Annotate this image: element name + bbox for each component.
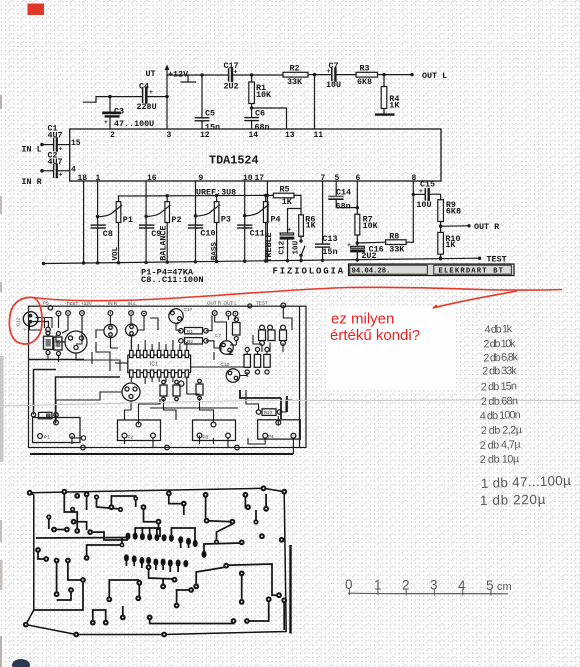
svg-text:+: + <box>327 68 331 75</box>
node R5 left <box>266 194 269 197</box>
svg-text:47..100U: 47..100U <box>114 119 154 129</box>
svg-text:OUT L: OUT L <box>422 71 447 81</box>
node pin1 wiper tap <box>96 215 99 218</box>
wire to pin 11 <box>314 75 316 129</box>
resistor R9 6K8 <box>438 200 461 233</box>
node pin8 junction <box>412 193 415 196</box>
node R1 bottom / pin13 branch <box>250 106 253 109</box>
svg-text:C10: C10 <box>200 229 215 239</box>
potentiometer P3 <box>196 194 231 263</box>
svg-text:R3: R3 <box>360 64 370 74</box>
cap footprint vertical <box>233 318 241 341</box>
capacitor C17 <box>224 61 239 92</box>
solder traces <box>36 492 284 630</box>
svg-text:+: + <box>59 146 63 153</box>
svg-text:2 db 15n: 2 db 15n <box>481 380 517 393</box>
wire UREF rail <box>119 194 268 197</box>
svg-text:FIZIOLOGIA: FIZIOLOGIA <box>273 267 346 277</box>
svg-text:10K: 10K <box>363 221 379 231</box>
node OUT L <box>410 73 413 76</box>
resistor R6 1K <box>299 215 317 241</box>
electrolytic can C17 top <box>169 307 193 328</box>
svg-text:C7: C7 <box>215 333 221 339</box>
capacitor C9 <box>140 225 162 239</box>
svg-text:68n: 68n <box>336 201 351 211</box>
resistor R1 10K <box>249 75 272 117</box>
svg-text:BALANCE: BALANCE <box>159 226 169 261</box>
wire to OUT L <box>384 74 412 76</box>
svg-text:8: 8 <box>412 174 417 183</box>
svg-text:R8: R8 <box>389 231 399 241</box>
svg-text:TREBLE: TREBLE <box>264 232 274 262</box>
svg-text:16: 16 <box>147 174 157 183</box>
svg-text:6K8: 6K8 <box>446 206 461 216</box>
node R7 bottom <box>356 241 359 244</box>
svg-text:UT: UT <box>146 69 156 79</box>
can C1 <box>104 324 117 337</box>
ground R4 <box>376 113 393 115</box>
resistor R10 1K <box>438 232 461 258</box>
wire C4 branch <box>110 96 142 98</box>
svg-text:TEST: TEST <box>256 300 268 305</box>
svg-text:0: 0 <box>345 577 353 592</box>
svg-text:C4: C4 <box>139 82 149 92</box>
svg-text:228U: 228U <box>137 102 157 112</box>
svg-text:-TEST: -TEST <box>65 301 78 306</box>
capacitor C4 220U <box>137 82 168 112</box>
svg-text:ELEKRDART BT: ELEKRDART BT <box>439 268 505 276</box>
svg-text:4U7: 4U7 <box>48 157 63 167</box>
ground trace left <box>34 580 83 610</box>
node OUT R junction <box>439 225 442 228</box>
potentiometer P2 footprint <box>118 420 161 441</box>
svg-text:R10: R10 <box>264 410 273 415</box>
svg-text:15n: 15n <box>322 247 337 257</box>
capacitor C8 <box>91 225 113 239</box>
hand drawn ruler <box>348 588 508 595</box>
SOLDER SIDE PCB <box>23 485 291 637</box>
wire pin 1 down <box>97 181 99 263</box>
svg-text:4: 4 <box>71 166 76 175</box>
top silk labels <box>65 300 268 305</box>
wire OUT R <box>441 225 469 227</box>
svg-text:11: 11 <box>314 131 324 140</box>
svg-text:ez milyen: ez milyen <box>331 311 394 328</box>
small cap footprints middle <box>160 379 203 401</box>
potentiometer P1 footprint <box>33 418 81 443</box>
svg-text:4 db 100n: 4 db 100n <box>480 409 521 422</box>
svg-text:TEST: TEST <box>487 255 507 265</box>
svg-text:TDA1524: TDA1524 <box>209 154 259 168</box>
white correction patch <box>328 306 456 390</box>
node C4 right <box>165 95 168 98</box>
wire pin 17 down <box>266 181 268 262</box>
svg-text:10U: 10U <box>292 240 300 254</box>
svg-text:OUT R: OUT R <box>207 300 222 305</box>
svg-text:VOL: VOL <box>112 246 120 260</box>
vertical rects right of DIP <box>244 347 270 374</box>
node pin6 R7 junction <box>356 206 359 209</box>
svg-text:1: 1 <box>374 578 382 593</box>
wire pin 8 down <box>412 181 414 194</box>
svg-text:6K8: 6K8 <box>357 77 372 87</box>
svg-text:C14: C14 <box>336 188 351 198</box>
svg-text:értékű kondi?: értékű kondi? <box>330 327 420 344</box>
capacitor C10 <box>189 225 216 239</box>
potentiometer P3 footprint <box>193 420 236 441</box>
svg-text:1K: 1K <box>306 221 317 231</box>
svg-text:IN L: IN L <box>128 301 137 306</box>
svg-text:C3: C3 <box>114 107 124 117</box>
svg-text:94.04.28.: 94.04.28. <box>352 268 391 276</box>
svg-text:10K: 10K <box>256 90 272 100</box>
node pin11 junction <box>313 73 316 76</box>
can C16 right <box>220 341 234 355</box>
resistor footprint right low <box>256 409 281 416</box>
svg-text:OUT R: OUT R <box>474 222 500 232</box>
wire ground rail <box>44 258 480 263</box>
red annotation circle <box>9 297 42 344</box>
svg-text:6: 6 <box>356 174 361 183</box>
svg-text:C8: C8 <box>103 229 113 239</box>
capacitor C14 68n on pin 5 <box>329 181 357 211</box>
svg-text:4U7: 4U7 <box>48 130 63 140</box>
fold line <box>0 400 580 406</box>
svg-text:P4: P4 <box>271 214 281 224</box>
capacitor C2 4U7 <box>42 150 70 178</box>
svg-text:4 db 1k: 4 db 1k <box>484 323 512 336</box>
svg-text:OUT L: OUT L <box>224 300 238 305</box>
svg-text:5: 5 <box>335 174 340 183</box>
title block box <box>349 264 515 276</box>
can C10 right <box>221 362 250 382</box>
node pin16 wiper tap <box>144 215 147 218</box>
potentiometer P1 <box>98 196 133 263</box>
svg-text:P3: P3 <box>203 435 209 440</box>
svg-text:14: 14 <box>249 131 259 140</box>
can C2 <box>126 324 138 336</box>
resistor R1 footprint <box>179 328 208 334</box>
svg-text:+: + <box>287 227 291 234</box>
resistor R7 10K <box>355 214 379 246</box>
svg-text:+: + <box>419 188 423 195</box>
resistor footprint left low <box>31 412 58 418</box>
svg-text:R2: R2 <box>187 339 193 344</box>
svg-text:IN R: IN R <box>22 177 43 187</box>
svg-text:13: 13 <box>285 131 295 140</box>
node pin10 wiper tap <box>243 214 246 217</box>
solder pads <box>23 485 287 637</box>
svg-text:IC1: IC1 <box>150 362 158 368</box>
svg-text:C13: C13 <box>322 234 337 244</box>
svg-text:15: 15 <box>71 139 81 148</box>
svg-text:2 db 10k: 2 db 10k <box>483 338 516 351</box>
svg-text:P5: P5 <box>43 300 49 305</box>
DIP pad row 1 <box>126 533 207 558</box>
svg-text:+: + <box>347 242 351 249</box>
svg-text:C11: C11 <box>250 229 265 239</box>
trace thick bottom <box>30 453 293 455</box>
svg-text:P1: P1 <box>44 435 50 440</box>
wire +12V rail <box>167 74 228 76</box>
node R4 junction <box>382 73 385 76</box>
svg-text:1K: 1K <box>445 240 456 250</box>
capacitor C3 47..100U <box>104 97 155 129</box>
wire rail C17 to R2 <box>234 74 284 76</box>
svg-text:P3: P3 <box>221 215 231 225</box>
right side pads column <box>259 325 287 345</box>
svg-text:2 db 68n: 2 db 68n <box>481 395 518 408</box>
wire pin 9 down <box>195 181 197 263</box>
svg-text:4: 4 <box>458 578 466 593</box>
resistor R4 1K <box>381 75 400 114</box>
svg-text:P2: P2 <box>172 215 182 225</box>
dark blob bottom left <box>12 659 30 667</box>
svg-text:R2: R2 <box>290 64 300 74</box>
svg-text:P1: P1 <box>123 215 133 225</box>
potentiometer P4 <box>245 194 281 262</box>
switch fiziologia <box>299 239 305 261</box>
op-amp U1 TDA1524 IC box <box>70 129 441 181</box>
potentiometer P2 <box>146 194 181 263</box>
svg-text:BASS: BASS <box>211 242 219 261</box>
wire pin 18 down <box>83 181 85 263</box>
wire to pin 13 <box>252 108 287 129</box>
svg-text:1K: 1K <box>389 101 400 111</box>
svg-text:2 db 2,2µ: 2 db 2,2µ <box>481 424 522 437</box>
svg-text:2U2: 2U2 <box>224 82 239 92</box>
potentiometer P4 footprint <box>258 420 301 439</box>
capacitor C7 10U <box>315 61 357 90</box>
node pin9 wiper tap <box>194 214 197 217</box>
svg-text:2 db 4,7µ: 2 db 4,7µ <box>479 439 520 452</box>
transistor T2 bottom <box>122 383 140 401</box>
connector pad CT2 (red circled) <box>23 312 48 333</box>
svg-text:2 db 33k: 2 db 33k <box>482 365 517 378</box>
red scan mark top left <box>28 4 45 16</box>
svg-text:P4: P4 <box>268 434 274 439</box>
transistor T1 big circle <box>60 331 87 353</box>
rail junction dots <box>82 257 442 265</box>
red annotation line <box>33 287 562 301</box>
svg-text:3: 3 <box>430 578 438 593</box>
svg-text:3: 3 <box>167 131 172 140</box>
wire pin 6 down <box>356 181 358 214</box>
svg-text:1 db 47...100µ: 1 db 47...100µ <box>481 473 572 491</box>
node TEST <box>478 257 481 260</box>
svg-text:1 db 220µ: 1 db 220µ <box>480 492 546 508</box>
svg-text:17: 17 <box>255 174 265 183</box>
resistor R3 6K8 <box>356 64 384 87</box>
node rail left end <box>42 262 46 266</box>
capacitor C12 10U <box>278 209 301 263</box>
resistor R8 33K <box>357 194 413 254</box>
capacitor C1 4U7 <box>42 124 70 153</box>
scan edge artifacts <box>0 95 4 667</box>
svg-text:2 db 6,8k: 2 db 6,8k <box>483 351 518 364</box>
svg-text:R1: R1 <box>187 329 193 334</box>
svg-text:12: 12 <box>200 131 210 140</box>
node R10 bottom <box>439 256 442 259</box>
svg-text:2 db 10µ: 2 db 10µ <box>480 453 520 466</box>
COMPONENT SIDE PCB <box>16 300 307 454</box>
svg-text:C12: C12 <box>278 240 286 254</box>
svg-text:18: 18 <box>78 174 88 183</box>
svg-text:cm: cm <box>497 581 512 593</box>
wire stub left of C3 <box>84 97 111 103</box>
svg-text:9: 9 <box>199 174 204 183</box>
svg-text:2: 2 <box>402 578 410 593</box>
wire pin 7 down / capacitor C13 15n <box>316 181 338 262</box>
svg-text:C8..C11:100N: C8..C11:100N <box>141 275 204 285</box>
resistor R2 footprint <box>179 338 208 344</box>
DIP pad row 2 <box>124 554 188 567</box>
capacitor C16 2U2 <box>347 242 384 261</box>
node R1 top <box>250 73 253 76</box>
node IN L <box>40 143 44 147</box>
svg-text:C5: C5 <box>205 109 215 119</box>
svg-text:1K: 1K <box>282 197 293 207</box>
wire pin 16 down <box>145 181 147 263</box>
wire pin 10 down <box>244 181 246 262</box>
node C5 tap <box>200 73 203 76</box>
board outline component side <box>29 306 307 447</box>
capacitor C6 68n <box>245 109 270 133</box>
capacitor C11 <box>238 225 265 239</box>
svg-text:+: + <box>24 328 27 333</box>
svg-text:33K: 33K <box>389 245 405 255</box>
board outline solder side <box>26 488 286 634</box>
handwritten parts list <box>479 323 571 508</box>
svg-text:IN L: IN L <box>22 145 42 155</box>
svg-text:C17: C17 <box>184 307 193 313</box>
svg-text:10U: 10U <box>416 200 431 210</box>
svg-text:+: + <box>104 119 108 126</box>
resistor R5 1K <box>267 185 301 215</box>
resistor R2 33K <box>283 64 315 87</box>
red annotation arrow stroke <box>433 291 517 308</box>
capacitor C15 10U <box>413 179 440 210</box>
svg-text:C6: C6 <box>255 109 265 119</box>
svg-text:R5: R5 <box>280 185 290 195</box>
resistor footprint vertical pair <box>44 331 63 356</box>
svg-text:C12: C12 <box>16 317 22 326</box>
node IN R <box>40 169 44 173</box>
node UT (+12V supply arrow) <box>146 65 190 130</box>
component side traces <box>29 308 293 454</box>
node C3 top <box>108 95 111 98</box>
svg-text:P2: P2 <box>128 435 134 440</box>
svg-text:33K: 33K <box>287 77 303 87</box>
svg-text:+: + <box>59 172 63 179</box>
top pad row <box>56 303 286 316</box>
svg-text:+12V: +12V <box>81 301 93 306</box>
capacitor C5 15n <box>195 75 220 133</box>
svg-text:+: + <box>149 89 153 96</box>
svg-text:IN R: IN R <box>108 301 118 306</box>
trace right edge thick <box>289 545 291 634</box>
svg-text:5: 5 <box>486 578 494 593</box>
SCHEMATIC <box>22 61 448 187</box>
IC1 DIP footprint <box>128 350 191 377</box>
svg-text:2: 2 <box>110 131 115 140</box>
svg-text:10U: 10U <box>326 80 341 90</box>
wire rail jog symbol <box>181 76 196 83</box>
